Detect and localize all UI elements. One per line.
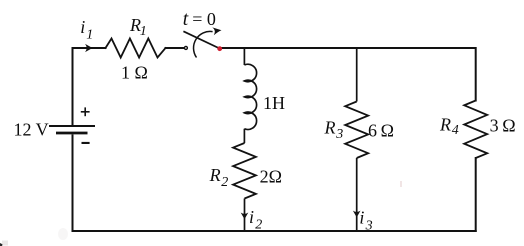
svg-text:12 V: 12 V	[14, 119, 49, 139]
svg-text:i: i	[359, 208, 364, 228]
svg-text:2Ω: 2Ω	[260, 167, 282, 187]
svg-text:6 Ω: 6 Ω	[368, 120, 394, 140]
svg-text:R: R	[439, 114, 451, 134]
svg-text:R: R	[209, 165, 221, 185]
svg-text:1: 1	[140, 24, 147, 39]
svg-text:1H: 1H	[263, 93, 285, 113]
svg-text:3 Ω: 3 Ω	[490, 116, 516, 136]
svg-text:t: t	[183, 9, 189, 30]
svg-text:= 0: = 0	[192, 9, 216, 29]
svg-text:i: i	[249, 207, 254, 227]
svg-text:i: i	[80, 17, 85, 37]
svg-text:R: R	[324, 118, 336, 138]
svg-text:3: 3	[335, 127, 343, 142]
svg-text:4: 4	[452, 123, 459, 138]
svg-text:2: 2	[221, 175, 228, 190]
svg-text:1: 1	[86, 28, 93, 43]
svg-text:1 Ω: 1 Ω	[121, 62, 148, 82]
svg-text:2: 2	[255, 218, 262, 233]
svg-text:3: 3	[365, 219, 373, 234]
